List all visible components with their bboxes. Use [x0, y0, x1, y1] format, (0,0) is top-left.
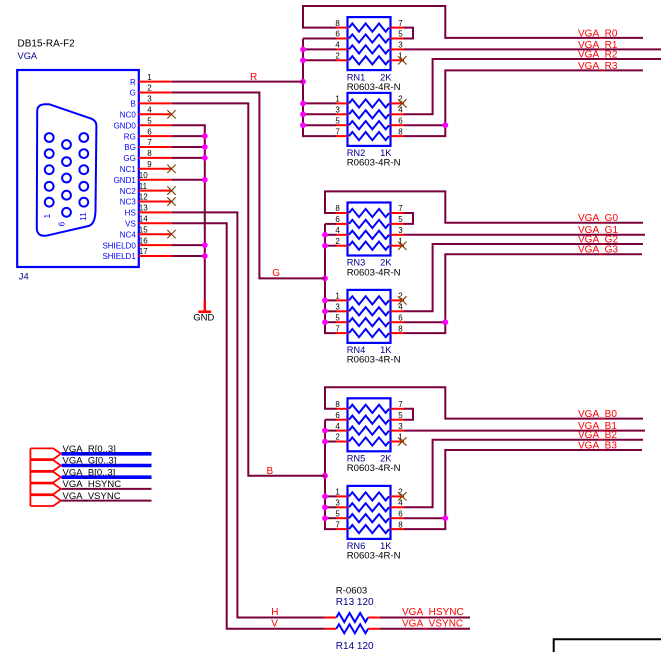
svg-text:1: 1: [147, 73, 152, 82]
off-page connector flag VGA_G[0..3]: [30, 460, 60, 471]
svg-text:4: 4: [335, 226, 340, 235]
svg-text:RN1: RN1: [347, 72, 366, 82]
wire VGA_B1 net: [404, 430, 645, 432]
svg-text:7: 7: [147, 138, 152, 147]
svg-text:RG: RG: [124, 132, 136, 141]
svg-text:3: 3: [335, 303, 340, 312]
svg-text:NC1: NC1: [120, 165, 137, 174]
svg-text:7: 7: [335, 324, 340, 333]
junction RN6 pin6: [442, 515, 448, 521]
svg-text:R14 120: R14 120: [336, 641, 374, 652]
svg-text:VGA_R[0..3]: VGA_R[0..3]: [63, 444, 116, 455]
svg-text:GG: GG: [123, 154, 135, 163]
svg-text:2K: 2K: [380, 72, 392, 82]
svg-text:GND0: GND0: [114, 121, 137, 130]
resistor network RN5 body: [335, 398, 404, 451]
svg-text:8: 8: [335, 204, 340, 213]
svg-text:5: 5: [398, 215, 403, 224]
svg-text:4: 4: [147, 106, 152, 115]
wire VGA_B2 net: [404, 440, 643, 508]
svg-text:10: 10: [139, 171, 148, 180]
svg-text:3: 3: [398, 41, 403, 50]
svg-text:G: G: [272, 268, 280, 279]
wire VGA_R3 net: [404, 70, 643, 136]
wire VGA_B0 net (pin8 of RN5 up and over): [325, 387, 643, 418]
svg-text:4: 4: [335, 422, 340, 431]
off-page connector flag VGA_R[0..3]: [30, 448, 60, 459]
svg-text:11: 11: [139, 182, 148, 191]
wire VGA_R1 net: [404, 48, 661, 50]
svg-text:1: 1: [42, 214, 52, 219]
svg-text:VS: VS: [125, 220, 136, 229]
wire J4 pin10 GND1 to gnd rail: [172, 179, 205, 181]
svg-text:RN5: RN5: [347, 454, 366, 464]
wire VGA_HSYNC: [62, 488, 152, 490]
svg-text:6: 6: [335, 30, 340, 39]
svg-text:VGA_B0: VGA_B0: [578, 409, 617, 420]
wire VGA_G3 net: [404, 254, 642, 333]
wire RN6 pin6 to VGA_B3: [404, 517, 445, 519]
resistor R13: [325, 613, 380, 622]
svg-text:R0603-4R-N: R0603-4R-N: [347, 82, 401, 93]
svg-text:VGA_B[0..3]: VGA_B[0..3]: [63, 467, 116, 478]
no-connect X on RN5 pin1: [398, 437, 406, 445]
wire GND0 pin5 to gnd rail: [172, 125, 205, 300]
wire J4 pin17 SHIELD1 to gnd rail: [172, 255, 205, 257]
no-connect X on RN4 pin2: [398, 296, 406, 304]
svg-text:VGA_VSYNC: VGA_VSYNC: [402, 618, 463, 629]
resistor network RN6 body: [335, 486, 404, 539]
svg-text:V: V: [271, 619, 278, 630]
no-connect X on RN6 pin2: [398, 492, 406, 500]
svg-text:17: 17: [139, 247, 148, 256]
svg-text:8: 8: [335, 400, 340, 409]
svg-text:3: 3: [398, 422, 403, 431]
svg-text:G: G: [130, 89, 136, 98]
wire V net from J4 pin14 VS: [172, 223, 325, 629]
bus VGA_R[0..3]: [62, 452, 152, 456]
svg-text:2: 2: [335, 237, 340, 246]
ground symbol: [198, 300, 211, 311]
connector J4 body: [17, 70, 139, 267]
no-connect X on RN1 pin1: [398, 56, 406, 64]
svg-text:1K: 1K: [380, 541, 392, 551]
svg-text:6: 6: [57, 222, 67, 227]
svg-text:NC4: NC4: [120, 230, 137, 239]
off-page connector flag VGA_HSYNC: [30, 484, 60, 495]
connector J4 pin stubs: [139, 82, 172, 256]
svg-text:VGA_G3: VGA_G3: [578, 245, 618, 256]
svg-text:VGA_R0: VGA_R0: [578, 28, 618, 39]
svg-text:7: 7: [335, 127, 340, 136]
svg-text:5: 5: [335, 313, 340, 322]
svg-text:NC2: NC2: [120, 187, 137, 196]
wire H net from J4 pin13 HS: [172, 212, 325, 617]
svg-text:5: 5: [335, 509, 340, 518]
svg-text:16: 16: [139, 236, 148, 245]
svg-text:5: 5: [335, 116, 340, 125]
svg-text:2: 2: [147, 84, 152, 93]
off-page connector flag VGA_VSYNC: [30, 495, 60, 506]
svg-text:R: R: [250, 72, 257, 83]
svg-text:12: 12: [139, 193, 148, 202]
svg-text:11: 11: [78, 212, 88, 221]
wire VGA_B3 net: [404, 450, 642, 529]
connector J4 pin names: [102, 78, 136, 261]
svg-text:7: 7: [335, 520, 340, 529]
svg-text:15: 15: [139, 225, 148, 234]
svg-text:R-0603: R-0603: [336, 586, 367, 597]
svg-text:1: 1: [335, 95, 340, 104]
no-connect X on J4 pin 4: [167, 110, 175, 118]
wire VGA_R0 net (pin8 of RN1 up and over): [303, 6, 643, 38]
bus VGA_B[0..3]: [62, 475, 152, 479]
svg-text:NC3: NC3: [120, 198, 137, 207]
svg-text:GND: GND: [193, 313, 214, 324]
no-connect X on RN3 pin1: [398, 242, 406, 250]
svg-text:3: 3: [335, 106, 340, 115]
svg-text:5: 5: [398, 30, 403, 39]
svg-text:1K: 1K: [380, 148, 392, 158]
bus VGA_G[0..3]: [62, 464, 152, 468]
svg-text:2: 2: [335, 433, 340, 442]
wire J4 pin6 RG to gnd rail: [172, 135, 205, 137]
wire R net from J4 pin1: [172, 81, 303, 83]
svg-text:B: B: [130, 100, 135, 109]
svg-text:2K: 2K: [380, 258, 392, 268]
net B input rail with branches: [322, 420, 336, 529]
wire B net from J4 pin3: [172, 103, 325, 475]
wire jumper RN3 pin7 to pin5: [404, 213, 413, 224]
svg-text:9: 9: [147, 160, 152, 169]
svg-text:4: 4: [335, 41, 340, 50]
resistor R14: [325, 624, 380, 633]
svg-text:6: 6: [398, 116, 403, 125]
svg-text:6: 6: [335, 215, 340, 224]
svg-text:DB15-RA-F2: DB15-RA-F2: [18, 39, 76, 50]
junction RN4 pin6: [442, 319, 448, 325]
svg-text:6: 6: [398, 509, 403, 518]
wire RN4 pin6 to VGA_G3: [404, 321, 445, 323]
svg-text:5: 5: [147, 116, 152, 125]
wire VGA_R2 net: [404, 59, 661, 114]
svg-text:VGA_R3: VGA_R3: [578, 61, 618, 72]
svg-text:6: 6: [398, 313, 403, 322]
svg-text:SHIELD0: SHIELD0: [102, 241, 136, 250]
svg-text:1K: 1K: [380, 345, 392, 355]
svg-text:3: 3: [147, 95, 152, 104]
svg-text:VGA_R2: VGA_R2: [578, 49, 618, 60]
wire RN2 pin6 to VGA_R3: [404, 124, 445, 126]
svg-text:GND1: GND1: [114, 176, 137, 185]
resistor network RN1 body: [335, 17, 404, 70]
svg-text:VGA: VGA: [18, 51, 38, 61]
connector J4 pin numbers 1-17: [139, 73, 152, 256]
svg-text:VGA_G0: VGA_G0: [578, 213, 618, 224]
svg-text:H: H: [271, 607, 278, 618]
title block border: [554, 639, 661, 652]
no-connect X on J4 pin 12: [167, 197, 175, 205]
svg-text:HS: HS: [125, 209, 136, 218]
svg-text:3: 3: [398, 226, 403, 235]
svg-text:13: 13: [139, 204, 148, 213]
svg-text:VGA_VSYNC: VGA_VSYNC: [63, 491, 121, 502]
net R input rail with branches: [300, 39, 336, 137]
wire VGA_G2 net: [404, 244, 643, 311]
svg-text:R: R: [130, 78, 136, 87]
svg-text:1: 1: [335, 488, 340, 497]
svg-text:B: B: [267, 466, 274, 477]
net G input rail with branches: [322, 224, 336, 333]
wire G net from J4 pin2: [172, 93, 325, 279]
svg-text:VGA_HSYNC: VGA_HSYNC: [63, 479, 122, 490]
resistor network RN2 body: [335, 93, 404, 146]
svg-text:2: 2: [335, 52, 340, 61]
svg-text:R0603-4R-N: R0603-4R-N: [347, 551, 401, 562]
svg-text:RN3: RN3: [347, 258, 366, 268]
svg-text:8: 8: [398, 520, 403, 529]
svg-text:7: 7: [398, 204, 403, 213]
svg-text:6: 6: [335, 411, 340, 420]
svg-text:2K: 2K: [380, 454, 392, 464]
connector J4 D-sub face outline: [37, 104, 97, 236]
svg-text:8: 8: [398, 324, 403, 333]
svg-text:R0603-4R-N: R0603-4R-N: [347, 463, 401, 474]
svg-text:7: 7: [398, 19, 403, 28]
svg-text:SHIELD1: SHIELD1: [102, 252, 136, 261]
svg-text:5: 5: [398, 411, 403, 420]
svg-text:8: 8: [398, 127, 403, 136]
off-page connector stack spine: [29, 448, 31, 506]
svg-text:6: 6: [147, 127, 152, 136]
wire J4 pin7 BG to gnd rail: [172, 146, 205, 148]
svg-text:NC0: NC0: [120, 111, 137, 120]
svg-text:8: 8: [335, 19, 340, 28]
svg-text:R0603-4R-N: R0603-4R-N: [347, 355, 401, 366]
svg-text:RN2: RN2: [347, 148, 366, 158]
wire VGA_G0 net (pin8 of RN3 up and over): [325, 191, 643, 222]
svg-text:7: 7: [398, 400, 403, 409]
svg-text:J4: J4: [19, 271, 29, 281]
no-connect X on J4 pin 9: [167, 165, 175, 173]
resistor network RN4 body: [335, 290, 404, 343]
svg-text:8: 8: [147, 149, 152, 158]
wire VGA_HSYNC net: [380, 617, 470, 619]
wire J4 pin16 SHIELD0 to gnd rail: [172, 244, 205, 246]
wire VGA_G1 net: [404, 234, 645, 236]
wire VGA_VSYNC: [62, 500, 152, 502]
svg-text:R13 120: R13 120: [336, 597, 374, 608]
svg-text:VGA_HSYNC: VGA_HSYNC: [402, 607, 464, 618]
svg-text:RN4: RN4: [347, 345, 366, 355]
svg-text:R0603-4R-N: R0603-4R-N: [347, 267, 401, 278]
svg-text:RN6: RN6: [347, 541, 366, 551]
svg-text:VGA_G[0..3]: VGA_G[0..3]: [63, 456, 117, 467]
wire jumper RN5 pin7 to pin5: [404, 409, 413, 420]
off-page connector flag VGA_B[0..3]: [30, 472, 60, 483]
no-connect X on RN2 pin2: [398, 99, 406, 107]
wire J4 pin8 GG to gnd rail: [172, 157, 205, 159]
resistor network RN3 body: [335, 203, 404, 256]
no-connect X on J4 pin 11: [167, 186, 175, 194]
svg-text:1: 1: [335, 292, 340, 301]
no-connect X on J4 pin 15: [167, 230, 175, 238]
svg-text:VGA_B3: VGA_B3: [578, 440, 617, 451]
svg-text:3: 3: [335, 499, 340, 508]
junction RN2 pin6: [442, 122, 448, 128]
svg-text:14: 14: [139, 215, 148, 224]
svg-text:R0603-4R-N: R0603-4R-N: [347, 158, 401, 169]
connector J4 D-sub holes: [45, 133, 88, 217]
wire VGA_VSYNC net: [380, 628, 470, 630]
wire jumper RN1 pin7 to pin5: [404, 28, 413, 39]
svg-text:BG: BG: [124, 143, 136, 152]
